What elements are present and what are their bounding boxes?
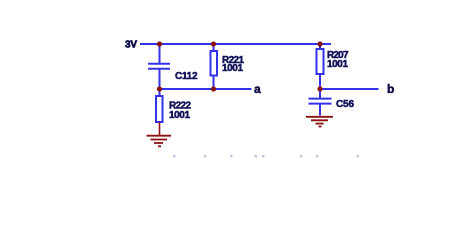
svg-text:1001: 1001 (222, 63, 243, 74)
svg-text:3V: 3V (125, 40, 137, 51)
svg-text:a: a (254, 82, 261, 96)
svg-text:C56: C56 (336, 99, 354, 110)
svg-text:1001: 1001 (327, 59, 348, 70)
svg-text:b: b (387, 82, 394, 96)
svg-text:1001: 1001 (169, 110, 190, 121)
svg-text:C112: C112 (175, 71, 198, 82)
